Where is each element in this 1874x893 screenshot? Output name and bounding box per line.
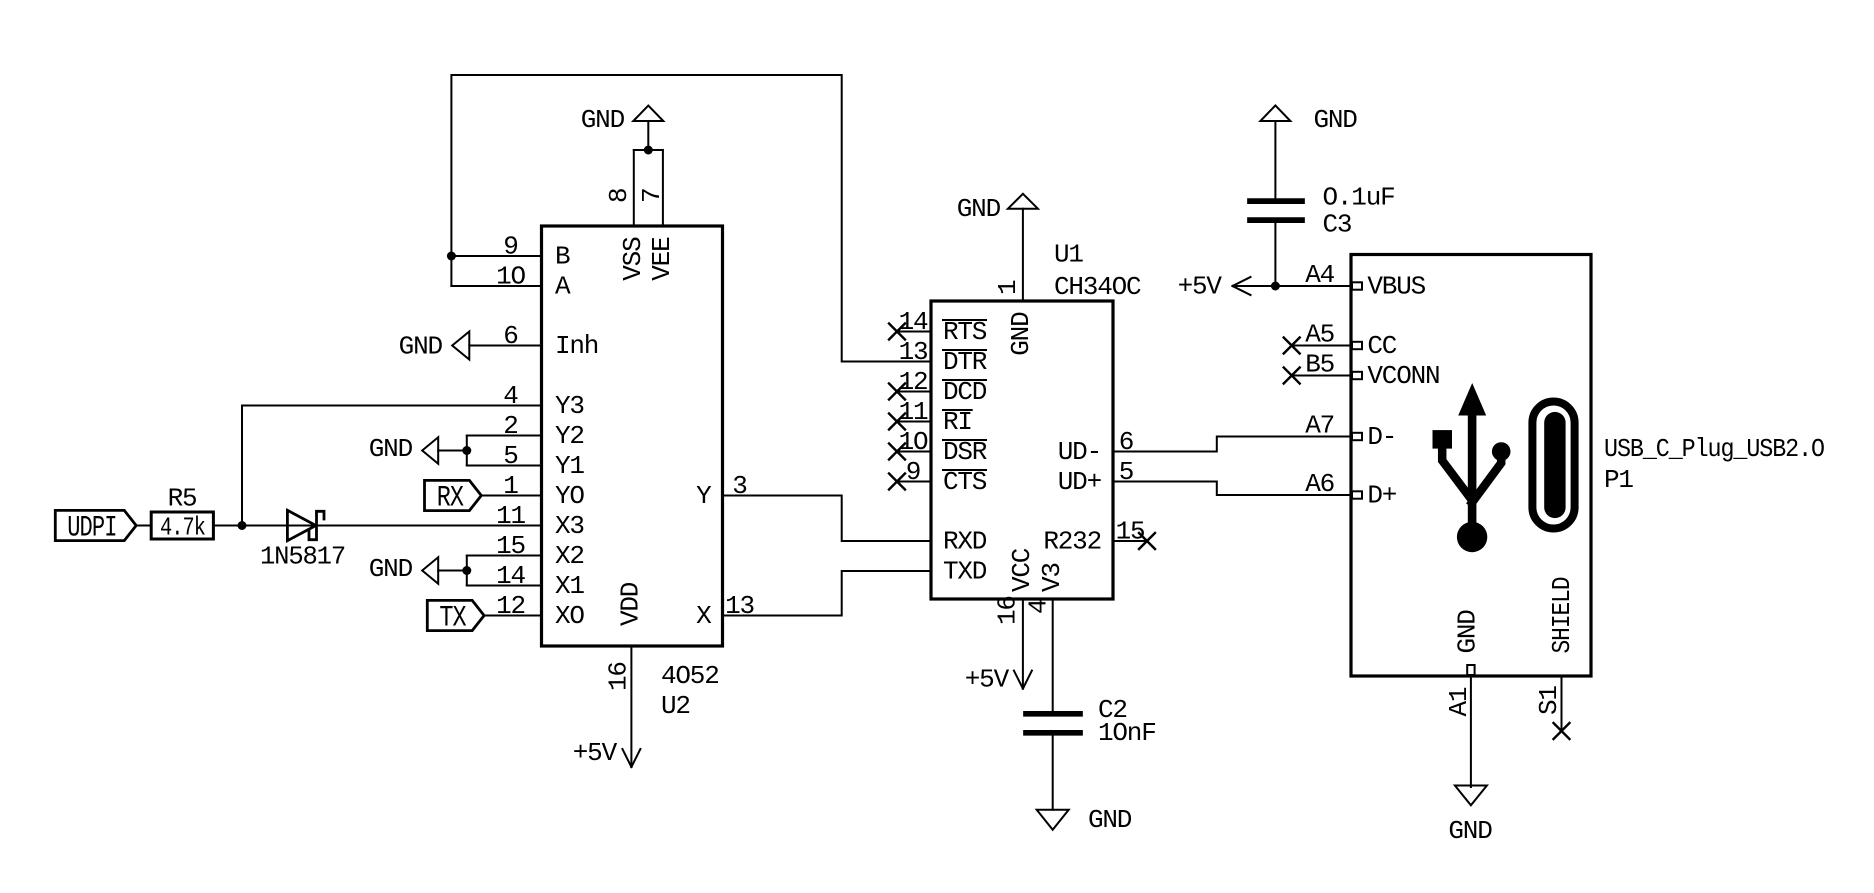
svg-text:P1: P1 bbox=[1604, 465, 1633, 495]
svg-text:8: 8 bbox=[604, 189, 634, 203]
svg-text:14: 14 bbox=[899, 307, 928, 337]
wire GND bus X2-X1 bbox=[466, 556, 468, 586]
svg-text:U2: U2 bbox=[661, 691, 690, 721]
wire RX tag to Y0 pin 1 bbox=[483, 495, 541, 497]
net label UDPI bbox=[55, 510, 136, 540]
svg-text:A5: A5 bbox=[1305, 320, 1334, 350]
node junction B tap bbox=[447, 252, 456, 261]
wire U1 pin 9 CTS stub bbox=[897, 481, 931, 483]
power +5V at U2 VDD bbox=[622, 749, 640, 767]
svg-text:A6: A6 bbox=[1305, 469, 1334, 499]
svg-text:D+: D+ bbox=[1367, 480, 1396, 510]
svg-text:11: 11 bbox=[496, 501, 525, 531]
svg-text:X1: X1 bbox=[555, 571, 584, 601]
node junction C3/VBUS bbox=[1271, 282, 1280, 291]
wire U1 pin 12 DCD stub bbox=[897, 391, 931, 393]
capacitor C3 plates bbox=[1250, 198, 1302, 204]
wire U1 pin 10 DSR stub bbox=[897, 451, 931, 453]
wire U1 UD- pin 6 to P1 D- A7 bbox=[1113, 437, 1351, 452]
svg-text:V3: V3 bbox=[1037, 563, 1067, 592]
svg-text:GND: GND bbox=[1448, 816, 1492, 846]
svg-text:1OnF: 1OnF bbox=[1098, 718, 1156, 748]
svg-text:6: 6 bbox=[503, 321, 517, 351]
wire U2 pin 6 Inh to GND flag bbox=[469, 345, 541, 347]
ground GND above U1 pin1 bbox=[1008, 194, 1038, 209]
svg-text:A7: A7 bbox=[1305, 411, 1334, 441]
svg-text:Y: Y bbox=[696, 481, 712, 511]
node junction R5/diode/Y3 riser bbox=[238, 521, 247, 530]
svg-text:UDPI: UDPI bbox=[67, 512, 116, 546]
svg-text:4.7k: 4.7k bbox=[160, 513, 205, 543]
wire U2 pin 14 X1 to GND bbox=[467, 585, 542, 587]
svg-text:R232: R232 bbox=[1043, 526, 1101, 556]
svg-text:13: 13 bbox=[899, 337, 928, 367]
svg-text:GND: GND bbox=[1088, 805, 1132, 835]
wire U2 pin 8 VSS stub bbox=[633, 150, 635, 226]
svg-text:1: 1 bbox=[503, 471, 518, 501]
svg-text:16: 16 bbox=[993, 596, 1023, 625]
svg-text:VCC: VCC bbox=[1007, 548, 1037, 592]
net label RX bbox=[425, 480, 482, 510]
no-connect X pin S1 SHIELD bbox=[1554, 723, 1570, 739]
svg-text:VBUS: VBUS bbox=[1367, 271, 1425, 301]
wire U2 pin 10 A bbox=[451, 285, 541, 287]
ground GND above U2 bbox=[633, 106, 663, 121]
ground GND below P1 A1 bbox=[1455, 786, 1487, 806]
svg-text:DTR: DTR bbox=[943, 347, 987, 377]
wire GND flag stub X2X1 bbox=[438, 570, 467, 572]
svg-text:+5V: +5V bbox=[1178, 272, 1223, 302]
svg-text:C3: C3 bbox=[1323, 210, 1352, 240]
wire +5V to VBUS A4 bbox=[1233, 285, 1352, 287]
svg-text:GND: GND bbox=[581, 105, 625, 135]
svg-text:X3: X3 bbox=[555, 511, 584, 541]
svg-text:X: X bbox=[696, 601, 712, 631]
wire riser to Y3 pin 4 bbox=[242, 406, 542, 526]
wire GND bus Y2-Y1 bbox=[466, 436, 468, 466]
svg-text:VDD: VDD bbox=[615, 582, 645, 626]
node junction GND X2X1 bbox=[462, 566, 471, 575]
svg-text:U1: U1 bbox=[1054, 240, 1083, 270]
svg-text:GND: GND bbox=[957, 194, 1001, 224]
svg-text:VSS: VSS bbox=[618, 237, 648, 281]
svg-text:USB_C_Plug_USB2.O: USB_C_Plug_USB2.O bbox=[1604, 434, 1825, 464]
svg-text:Inh: Inh bbox=[555, 331, 598, 361]
svg-text:GND: GND bbox=[1006, 312, 1036, 356]
svg-text:12: 12 bbox=[899, 367, 928, 397]
svg-text:1O: 1O bbox=[899, 427, 928, 457]
svg-text:CC: CC bbox=[1367, 331, 1396, 361]
wire U2 pin 16 VDD to +5V bbox=[630, 646, 632, 767]
net label TX bbox=[427, 600, 484, 630]
svg-text:X2: X2 bbox=[555, 541, 584, 571]
svg-text:Y3: Y3 bbox=[555, 391, 584, 421]
USB trident icon inside P1 bbox=[1458, 383, 1486, 416]
svg-text:12: 12 bbox=[496, 591, 525, 621]
svg-text:XO: XO bbox=[555, 601, 584, 631]
ground GND below C2 bbox=[1037, 810, 1069, 830]
wire U1 pin 1 GND stub bbox=[1022, 209, 1024, 301]
wire UDPI net through R5 and diode to X3 bbox=[137, 525, 542, 527]
wire VSS-VEE top bar bbox=[634, 149, 663, 151]
svg-text:3: 3 bbox=[732, 471, 746, 501]
wire U2 pin 15 X2 to GND bbox=[467, 555, 542, 557]
resistor R5 box bbox=[151, 512, 213, 539]
wire GND flag stub Y2Y1 bbox=[438, 450, 467, 452]
svg-text:9: 9 bbox=[906, 457, 920, 487]
svg-text:CTS: CTS bbox=[943, 467, 987, 497]
svg-text:13: 13 bbox=[725, 591, 754, 621]
wire P1 VCONN stub B5 bbox=[1292, 375, 1351, 377]
wire U2 pin 2 Y2 to GND bbox=[467, 435, 542, 437]
svg-text:DCD: DCD bbox=[943, 377, 987, 407]
svg-text:VCONN: VCONN bbox=[1367, 361, 1439, 391]
diode D1 1N5817 schottky symbol bbox=[287, 510, 316, 540]
wire U2 Y pin 3 to U1 RXD pin 3 bbox=[723, 496, 932, 542]
op-amp U1 CH340C usb-serial body and pin labels bbox=[931, 301, 1113, 599]
svg-text:A: A bbox=[555, 271, 571, 301]
svg-text:15: 15 bbox=[496, 531, 525, 561]
svg-text:TX: TX bbox=[439, 602, 466, 636]
svg-text:R5: R5 bbox=[168, 484, 197, 514]
svg-text:4O52: 4O52 bbox=[661, 661, 719, 691]
svg-text:9: 9 bbox=[503, 232, 517, 262]
no-connect X pin A5 CC bbox=[1284, 338, 1300, 354]
svg-text:B5: B5 bbox=[1305, 350, 1334, 380]
svg-text:RX: RX bbox=[437, 482, 464, 516]
svg-text:UD+: UD+ bbox=[1058, 467, 1102, 497]
ground GND above C3 bbox=[1260, 105, 1290, 121]
svg-text:1O: 1O bbox=[496, 262, 525, 292]
svg-text:GND: GND bbox=[369, 434, 413, 464]
ground GND flag at U2 Inh bbox=[452, 332, 469, 360]
svg-text:UD-: UD- bbox=[1058, 437, 1101, 467]
no-connect X pin 9 CTS bbox=[889, 474, 905, 490]
wire C3 to VBUS net bbox=[1274, 220, 1276, 286]
no-connect X pin 11 RI bbox=[889, 414, 905, 430]
svg-text:+5V: +5V bbox=[965, 665, 1010, 695]
no-connect X pin 15 R232 bbox=[1139, 533, 1155, 549]
svg-text:B: B bbox=[555, 241, 570, 271]
svg-text:Y2: Y2 bbox=[555, 421, 584, 451]
wire C3 to GND flag bbox=[1274, 121, 1276, 198]
svg-text:2: 2 bbox=[503, 411, 517, 441]
no-connect X pin 12 DCD bbox=[889, 384, 905, 400]
wire U2 X pin 13 to U1 TXD pin 2 bbox=[723, 571, 932, 616]
svg-text:RI: RI bbox=[943, 407, 972, 437]
svg-text:O.1uF: O.1uF bbox=[1323, 183, 1395, 213]
wire U2 pin 7 VEE stub bbox=[662, 150, 664, 226]
wire U1 pin 11 RI stub bbox=[897, 421, 931, 423]
op-amp U2 4052 analog multiplexer body and pin labels bbox=[542, 226, 723, 646]
svg-text:4: 4 bbox=[503, 381, 518, 411]
svg-text:A4: A4 bbox=[1305, 260, 1334, 290]
no-connect X pin B5 VCONN bbox=[1284, 368, 1300, 384]
wire P1 SHIELD pin S1 stub bbox=[1561, 676, 1563, 729]
wire U1 pin 16 VCC to +5V bbox=[1022, 599, 1024, 689]
svg-text:14: 14 bbox=[496, 561, 525, 591]
svg-text:DSR: DSR bbox=[943, 437, 987, 467]
power +5V at P1 VBUS bbox=[1233, 277, 1251, 295]
svg-text:VEE: VEE bbox=[647, 237, 677, 281]
svg-text:A1: A1 bbox=[1444, 687, 1474, 716]
svg-text:Y1: Y1 bbox=[555, 451, 584, 481]
wire U1 pin 4 V3 to C2 bbox=[1052, 599, 1054, 711]
wire U1 UD+ pin 5 to P1 D+ A6 bbox=[1113, 482, 1351, 496]
svg-text:7: 7 bbox=[637, 189, 667, 203]
wire P1 GND pin A1 to GND bbox=[1470, 676, 1472, 787]
svg-text:SHIELD: SHIELD bbox=[1547, 577, 1577, 654]
ground GND flag at U2 X2/X1 bbox=[422, 557, 438, 584]
svg-text:16: 16 bbox=[604, 662, 634, 691]
svg-text:6: 6 bbox=[1119, 427, 1133, 457]
svg-text:RTS: RTS bbox=[943, 317, 987, 347]
connector P1 USB-C plug body and pin labels bbox=[1351, 255, 1591, 677]
capacitor C2 plates bbox=[1026, 711, 1080, 717]
node junction GND Y2Y1 bbox=[462, 446, 471, 455]
no-connect X pin 10 DSR bbox=[889, 444, 905, 460]
node junction VSS/VEE GND bbox=[644, 146, 653, 155]
no-connect X pin 14 RTS bbox=[889, 324, 905, 340]
svg-text:RXD: RXD bbox=[943, 526, 987, 556]
svg-text:5: 5 bbox=[1119, 457, 1133, 487]
wire P1 CC stub A5 bbox=[1292, 345, 1351, 347]
svg-text:11: 11 bbox=[899, 397, 928, 427]
wire TX tag to X0 pin 12 bbox=[485, 615, 542, 617]
ground GND flag at U2 Y2/Y1 bbox=[422, 437, 438, 464]
svg-text:GND: GND bbox=[399, 332, 443, 362]
wire C2 to GND bbox=[1052, 735, 1054, 810]
power +5V at U1 VCC bbox=[1014, 671, 1032, 689]
wire U1 pin 15 R232 stub bbox=[1113, 540, 1147, 542]
svg-text:15: 15 bbox=[1116, 517, 1145, 547]
svg-text:YO: YO bbox=[555, 481, 584, 511]
USB-C receptacle oval icon bbox=[1532, 402, 1574, 529]
svg-text:4: 4 bbox=[1024, 599, 1054, 614]
wire to GND flag above U2 bbox=[647, 121, 649, 150]
svg-text:GND: GND bbox=[369, 554, 413, 584]
wire U2 pin 5 Y1 to GND bbox=[467, 465, 542, 467]
svg-text:TXD: TXD bbox=[943, 556, 987, 586]
wire U1 pin 14 RTS stub bbox=[897, 331, 931, 333]
svg-text:S1: S1 bbox=[1534, 686, 1564, 715]
wire net DTR from U2 A/B riser top rail bbox=[451, 75, 931, 362]
svg-text:D-: D- bbox=[1367, 422, 1396, 452]
svg-text:GND: GND bbox=[1314, 105, 1358, 135]
svg-text:GND: GND bbox=[1453, 610, 1483, 654]
svg-text:5: 5 bbox=[503, 441, 517, 471]
svg-text:CH34OC: CH34OC bbox=[1054, 272, 1141, 302]
svg-text:1: 1 bbox=[993, 280, 1023, 295]
wire U2 pin 9 B bbox=[451, 255, 541, 257]
svg-text:+5V: +5V bbox=[573, 738, 618, 768]
svg-text:1N5817: 1N5817 bbox=[260, 542, 345, 572]
